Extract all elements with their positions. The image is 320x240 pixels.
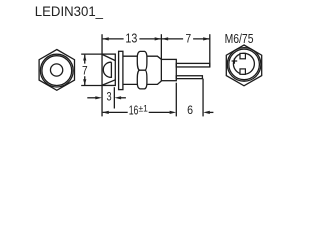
side view hex nut lower facet — [137, 70, 147, 89]
side view led dome — [103, 62, 111, 77]
front view bezel outer circle — [40, 54, 73, 87]
dim 16 left arrowhead — [102, 111, 109, 114]
svg-text:16: 16 — [129, 103, 139, 117]
dim 3 left arrowhead — [95, 96, 102, 99]
svg-text:7: 7 — [185, 33, 191, 46]
side view rear barrel — [161, 59, 176, 80]
rear view top pin square — [240, 53, 245, 58]
dim 13 line — [103, 38, 161, 40]
dim 6 right arrowhead — [203, 111, 210, 114]
side view neck section — [123, 56, 137, 84]
dim 7 vertical arrowheads — [83, 54, 86, 85]
rear view led body circle — [233, 53, 254, 74]
dim 3 right arrowhead — [115, 96, 122, 99]
front view bezel inner circle — [42, 56, 72, 86]
dim 3 right arrow line — [121, 97, 126, 99]
side view countersink top diagonal — [102, 55, 115, 61]
rear view bottom pin square — [240, 69, 245, 74]
side view countersink bottom diagonal — [102, 80, 115, 85]
dim 13 left witness line — [101, 34, 103, 116]
rear view hexagon nut — [226, 45, 261, 86]
dim 3 right witness line — [113, 87, 115, 108]
svg-text:M6/75: M6/75 — [225, 32, 254, 46]
dim 16 line right shared with dim 6 left arrow — [149, 111, 170, 113]
dim 6 right arrow line — [209, 111, 213, 113]
dim 6 left witness line — [175, 83, 177, 117]
rear view bezel outer circle — [227, 48, 261, 82]
svg-text:LEDIN301_: LEDIN301_ — [35, 4, 104, 19]
side view flange — [119, 51, 123, 89]
rear view plus polarity mark — [232, 58, 238, 64]
side view threaded body — [147, 56, 162, 84]
svg-text:7: 7 — [82, 65, 88, 78]
dim 13 and 7 shared witness line — [160, 34, 162, 59]
rear view bezel inner circle — [229, 49, 260, 80]
dim 7 vertical stem — [84, 55, 86, 85]
dim 13 arrowheads — [102, 37, 161, 40]
svg-text:3: 3 — [107, 90, 112, 103]
dim 6 right witness line — [202, 79, 204, 117]
svg-text:13: 13 — [125, 31, 137, 45]
dim 16 line left — [103, 111, 128, 113]
svg-text:±1: ±1 — [139, 103, 148, 114]
svg-text:6: 6 — [187, 104, 193, 117]
dim 7 top right witness line — [209, 34, 211, 67]
front view hexagon nut — [39, 50, 74, 91]
dim 7 top arrowheads — [162, 37, 210, 40]
side view hex nut upper facet — [137, 51, 147, 70]
dim 3 left arrow line — [87, 97, 96, 99]
dim 7 top line — [162, 38, 210, 40]
front view lens circle — [50, 64, 62, 76]
side view bottom lead wire — [176, 76, 202, 79]
side view top lead wire — [176, 63, 210, 67]
side view bezel body — [102, 54, 115, 85]
dim 7 vertical top extension line — [81, 53, 102, 55]
dim 16 right arrowhead — [170, 111, 177, 114]
dim 7 vertical bottom extension line — [81, 85, 102, 87]
